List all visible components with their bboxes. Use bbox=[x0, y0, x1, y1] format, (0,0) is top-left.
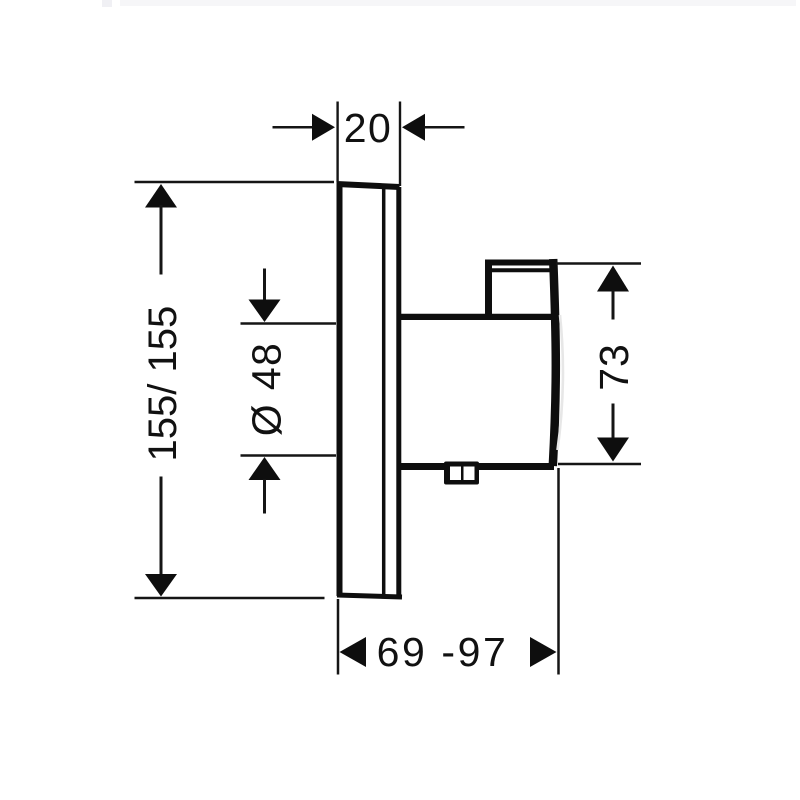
dim 48 upper stem bbox=[263, 269, 266, 302]
svg-text:Ø 48: Ø 48 bbox=[244, 342, 290, 437]
bottom tab left window bbox=[450, 467, 461, 481]
dim 73 text bbox=[591, 343, 637, 391]
svg-text:73: 73 bbox=[591, 343, 637, 391]
cartridge lip line bbox=[492, 268, 551, 272]
dim 73 lower stem bbox=[612, 404, 615, 440]
dim 20 left arrow bbox=[312, 114, 335, 141]
wall plate bottom edge bbox=[337, 595, 402, 597]
wall plate left edge bbox=[337, 182, 343, 596]
valve body bottom edge bbox=[401, 463, 554, 470]
bottom tab body bbox=[444, 462, 479, 485]
dim 69-97 right arrow bbox=[530, 637, 557, 667]
wall plate inner line bbox=[382, 187, 386, 596]
wall plate right edge bbox=[396, 187, 401, 597]
dim 155 bottom arrow bbox=[145, 574, 177, 597]
dim 155 lower stem bbox=[160, 477, 163, 577]
svg-text:20: 20 bbox=[344, 105, 393, 151]
dim 20 left extension line bbox=[336, 102, 338, 183]
dim 155 bottom extension line bbox=[135, 597, 325, 600]
dim 48 top tick line bbox=[241, 322, 337, 325]
svg-text:69 -97: 69 -97 bbox=[377, 629, 509, 675]
dim 155 text bbox=[141, 306, 185, 462]
dim 20 right tail line bbox=[424, 126, 465, 129]
dim 48 text bbox=[244, 342, 290, 437]
dim 48 up arrow bbox=[249, 457, 281, 480]
dim 48 lower stem bbox=[263, 479, 266, 514]
dim 73 bottom arrow bbox=[597, 438, 629, 462]
dim 69-97 left extension line bbox=[337, 599, 340, 675]
dim 73 top extension line bbox=[556, 262, 641, 265]
bottom tab right window bbox=[464, 467, 475, 481]
cartridge left edge bbox=[485, 260, 492, 317]
svg-text:155/ 155: 155/ 155 bbox=[141, 306, 185, 462]
dim 155 top arrow bbox=[145, 184, 177, 208]
dim 73 upper stem bbox=[612, 290, 615, 320]
dim 20 left tail line bbox=[273, 126, 314, 129]
dim 20 right arrow bbox=[402, 114, 425, 141]
dim 48 down arrow bbox=[249, 300, 281, 323]
cartridge top edge bbox=[486, 260, 556, 266]
dim 20 right extension line bbox=[399, 102, 401, 187]
cropped header remnant strip bbox=[102, 0, 112, 7]
dim 69-97 left arrow bbox=[340, 637, 367, 667]
valve body top edge bbox=[401, 314, 552, 320]
dim 73 bottom extension line bbox=[558, 463, 641, 466]
dim 48 bottom tick line bbox=[241, 454, 337, 457]
dim 69-97 right extension line bbox=[557, 468, 560, 675]
faint knob silhouette arc bbox=[558, 315, 563, 450]
dim 73 top arrow bbox=[597, 266, 629, 292]
dim 155 top extension line bbox=[135, 181, 335, 184]
wall plate top edge bbox=[337, 184, 400, 187]
valve body right edge (slightly bulged) bbox=[553, 259, 556, 466]
dim 155 upper stem bbox=[160, 205, 163, 275]
